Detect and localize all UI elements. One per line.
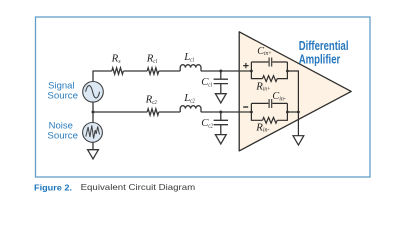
- node: source junction: [92, 111, 95, 114]
- signal source V1: [83, 82, 104, 103]
- - input marker: [243, 106, 248, 108]
- wire Rc1 to Lc1: [159, 70, 180, 72]
- svg-text:Equivalent Circuit Diagram: Equivalent Circuit Diagram: [81, 182, 196, 192]
- capacitor Cin- plates: [269, 99, 272, 108]
- inside amplifier wiring: [251, 58, 303, 146]
- wire top rail left: source to Rs: [93, 71, 112, 81]
- ground (noise source): [88, 150, 99, 159]
- wire Rs to Rc1: [123, 70, 147, 72]
- wire from Cin+ box to common node: [287, 71, 298, 112]
- noise source V2: [83, 122, 103, 142]
- node: top rail junction: [219, 70, 222, 73]
- wire Cc2 to ground: [220, 125, 222, 135]
- wire Cc1 upper lead: [220, 71, 222, 79]
- wire signal to noise node: [92, 102, 94, 123]
- inductor Lc2: [180, 106, 201, 112]
- node dots inside amp: [250, 70, 253, 73]
- wire common node to ground: [297, 112, 299, 136]
- noise wave symbol: [86, 126, 100, 139]
- Rin-/Cin- network box: [251, 103, 287, 123]
- op-amp U1 differential amplifier triangle: [239, 32, 351, 151]
- figure frame: [36, 17, 371, 177]
- wire Lc1 to amp + input: [201, 70, 252, 72]
- wire from Cin- box to common node: [287, 111, 298, 113]
- ground (Cc1): [215, 94, 226, 103]
- capacitor Cin+ plates: [269, 58, 272, 67]
- ground (Cc2): [215, 135, 226, 144]
- svg-text:Source: Source: [47, 90, 78, 100]
- resistor Rs: [112, 68, 124, 74]
- capacitor Cc1: [214, 79, 228, 83]
- ground (amplifier common): [293, 136, 304, 145]
- wire Rc2 to Lc2: [159, 111, 180, 113]
- wire noise source to ground: [92, 142, 94, 149]
- svg-text:Noise: Noise: [49, 121, 73, 131]
- capacitor Cc2: [214, 120, 228, 124]
- wire Cc1 to ground: [220, 84, 222, 94]
- Rin+/Cin+ network box: [251, 62, 287, 82]
- wire lower rail: node to Rc2: [93, 111, 147, 113]
- + input marker: [243, 63, 248, 68]
- svg-text:Figure 2.: Figure 2.: [34, 182, 72, 192]
- resistor Rc2: [147, 109, 159, 115]
- wire Lc2 to amp - input: [201, 111, 252, 113]
- sine wave symbol: [86, 86, 100, 98]
- svg-text:Amplifier: Amplifier: [299, 52, 341, 66]
- wire Cc2 upper lead: [220, 112, 222, 120]
- resistor Rc1: [147, 68, 159, 74]
- node: lower rail junction: [219, 111, 222, 114]
- svg-text:Source: Source: [47, 130, 78, 140]
- inductor Lc1: [180, 65, 201, 71]
- svg-text:Differential: Differential: [299, 39, 349, 53]
- svg-text:Signal: Signal: [48, 81, 74, 91]
